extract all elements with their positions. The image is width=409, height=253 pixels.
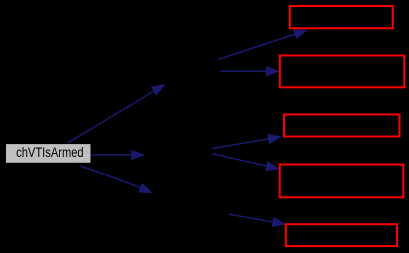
red node 3: [284, 115, 400, 137]
edge A2: hidden node 1 to red node 2: [220, 66, 280, 76]
edge C1: hidden node 3 to red node 5: [229, 214, 286, 227]
edge A1: hidden node 1 to red node 1: [218, 29, 308, 59]
edge C: chVTIsArmed to hidden middle node 3: [80, 166, 154, 193]
edge A: chVTIsArmed to hidden middle node 1: [68, 84, 166, 143]
node chVTIsArmed (current function, gray): [6, 144, 92, 164]
red node 5: [286, 224, 397, 246]
edge B1: hidden node 2 to red node 3: [212, 134, 282, 149]
red node 2: [280, 56, 405, 88]
red node 1: [290, 6, 393, 28]
svg-text:chVTIsArmed: chVTIsArmed: [16, 144, 84, 160]
edge B2: hidden node 2 to red node 4: [212, 154, 280, 172]
red node 4: [280, 165, 404, 198]
edge B: chVTIsArmed to hidden middle node 2: [91, 150, 145, 160]
